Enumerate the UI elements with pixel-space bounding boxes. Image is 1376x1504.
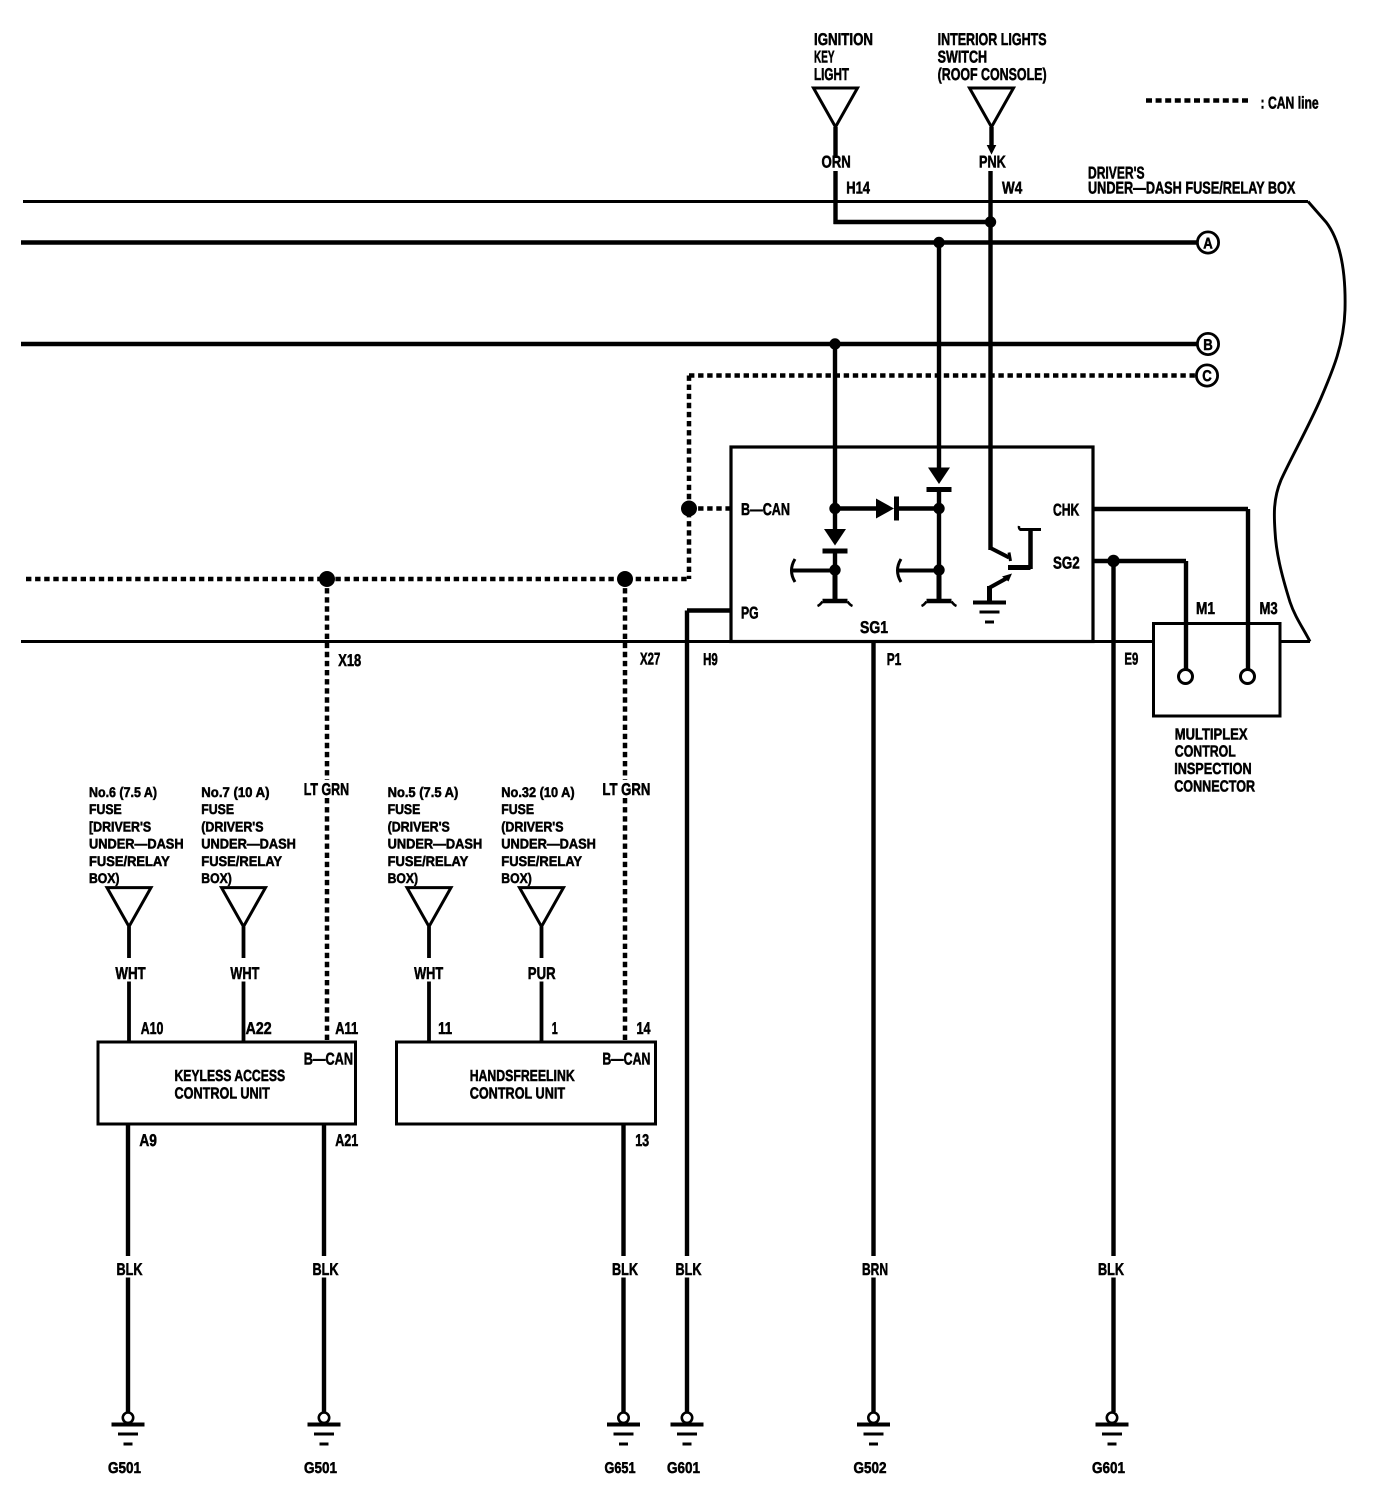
junction node B-CAN branch on riser xyxy=(681,501,697,517)
svg-text:G601: G601 xyxy=(1092,1460,1125,1477)
svg-text:HANDSFREELINK: HANDSFREELINK xyxy=(470,1068,575,1085)
ground G502 xyxy=(868,1413,878,1423)
svg-text:BOX): BOX) xyxy=(501,870,532,886)
connector triangle: IGNITION KEY LIGHT xyxy=(814,88,858,127)
svg-text:WHT: WHT xyxy=(230,964,259,983)
svg-text:C: C xyxy=(1202,368,1212,385)
svg-text:A10: A10 xyxy=(141,1019,164,1038)
wire Q1 emitter to internal ground xyxy=(987,586,992,601)
wire from bus B down into control box to B-CAN node xyxy=(833,344,837,509)
CAN dashed drop wire LT GRN from X18 to keyless access unit pin A11 xyxy=(325,579,330,780)
diode D2 (pointing down) on x=939 branch from bus A xyxy=(928,468,950,485)
transistor Q3 (middle) with base bracket and emitter bar xyxy=(933,564,944,575)
transistor Q2 (left) with base bracket and emitter bar xyxy=(829,564,840,575)
wire PUR from fuse F4 to handsfreelink unit pin 1 xyxy=(540,927,544,958)
svg-text:MULTIPLEX: MULTIPLEX xyxy=(1175,727,1248,744)
fuse F2 triangle symbol xyxy=(222,888,266,927)
CAN dashed vertical riser x=689 from bus C down to lower CAN bus xyxy=(687,376,692,580)
keyless access control unit box xyxy=(98,1042,356,1124)
svg-text:PNK: PNK xyxy=(979,153,1006,172)
wire WHT from fuse F3 to handsfreelink unit pin 11 xyxy=(427,927,431,958)
svg-text:BLK: BLK xyxy=(612,1260,639,1279)
svg-text:M3: M3 xyxy=(1260,599,1278,618)
driver's under-dash fuse/relay box top edge xyxy=(23,200,1308,203)
svg-text:UNDER—DASH: UNDER—DASH xyxy=(388,836,483,852)
wire PNK from interior lights switch, pin W4 xyxy=(989,127,993,146)
svg-text:A21: A21 xyxy=(335,1131,358,1150)
bus wire A (thick horizontal) xyxy=(21,240,1198,244)
svg-text:BLK: BLK xyxy=(313,1260,340,1279)
fuse F1 triangle symbol xyxy=(107,888,151,927)
multiplex control inspection connector box xyxy=(1154,624,1281,717)
svg-text:G502: G502 xyxy=(854,1460,887,1477)
ground G501 (second) xyxy=(319,1413,329,1423)
svg-text:BOX): BOX) xyxy=(388,870,419,886)
svg-text:1: 1 xyxy=(552,1019,558,1038)
CAN dashed branch to B-CAN pin of control box xyxy=(689,506,731,511)
svg-text:A22: A22 xyxy=(246,1019,272,1038)
svg-text:BOX): BOX) xyxy=(201,870,232,886)
svg-text:LIGHT: LIGHT xyxy=(814,65,849,84)
svg-text:UNDER—DASH FUSE/RELAY BOX: UNDER—DASH FUSE/RELAY BOX xyxy=(1088,179,1296,198)
svg-text:H9: H9 xyxy=(703,650,718,669)
svg-text:(DRIVER'S: (DRIVER'S xyxy=(201,818,263,834)
svg-text:UNDER—DASH: UNDER—DASH xyxy=(501,836,596,852)
ground G601 for E9 wire xyxy=(1107,1413,1117,1423)
svg-text:FUSE: FUSE xyxy=(201,801,234,817)
svg-text:X18: X18 xyxy=(338,651,361,670)
wire from bus A down into control box to diode D2 xyxy=(937,243,941,469)
svg-text:SWITCH: SWITCH xyxy=(938,48,988,67)
internal ground symbol under Q1 xyxy=(973,601,1006,605)
svg-text:WHT: WHT xyxy=(115,964,146,983)
svg-text:CONTROL: CONTROL xyxy=(1175,744,1236,761)
CAN dashed drop wire LT GRN from X27 to handsfreelink unit pin 14 xyxy=(623,579,628,780)
svg-text:FUSE: FUSE xyxy=(388,801,421,817)
control box (integrated unit) outline xyxy=(731,447,1093,642)
svg-text:FUSE: FUSE xyxy=(89,801,122,817)
lower CAN dashed bus y=579 xyxy=(26,577,689,582)
ground G651 xyxy=(618,1413,628,1423)
svg-text:14: 14 xyxy=(637,1019,651,1038)
svg-text:H14: H14 xyxy=(846,179,870,198)
wire WHT from fuse F1 to keyless access unit pin A10 xyxy=(127,927,131,958)
fuse F3 triangle symbol xyxy=(407,888,451,927)
svg-text:CONTROL UNIT: CONTROL UNIT xyxy=(175,1086,271,1103)
svg-text:UNDER—DASH: UNDER—DASH xyxy=(89,836,184,852)
handsfreelink control unit box xyxy=(397,1042,656,1124)
svg-text:G501: G501 xyxy=(304,1460,337,1477)
wire stub and terminal circle M1 xyxy=(1184,622,1188,670)
legend: CAN line dashed sample xyxy=(1146,98,1251,103)
svg-text:UNDER—DASH: UNDER—DASH xyxy=(201,836,296,852)
svg-text:FUSE/RELAY: FUSE/RELAY xyxy=(201,853,282,869)
wire pin 13 down to ground G651 (BLK) xyxy=(621,1124,625,1256)
svg-text:B—CAN: B—CAN xyxy=(741,500,790,519)
wire from node x=939 down to transistor Q3 xyxy=(937,509,941,571)
svg-text:P1: P1 xyxy=(887,650,902,669)
svg-text:BLK: BLK xyxy=(117,1260,144,1279)
svg-text:LT GRN: LT GRN xyxy=(602,780,650,799)
svg-text:B: B xyxy=(1203,337,1213,354)
svg-text:CONNECTOR: CONNECTOR xyxy=(1174,779,1255,796)
svg-text:A11: A11 xyxy=(335,1019,358,1038)
ground G501 (left) xyxy=(123,1413,133,1423)
wire SG1/P1 from control box bottom down to ground G502 (BRN) xyxy=(871,642,875,1257)
transistor Q1 (right, PNP to ground) xyxy=(991,548,1010,558)
wire A21 down to ground G501 (BLK) xyxy=(322,1124,326,1256)
svg-text:E9: E9 xyxy=(1124,650,1138,669)
wire PNK continues down into control box to transistor Q1 collector xyxy=(988,222,992,550)
svg-text:(DRIVER'S: (DRIVER'S xyxy=(501,818,563,834)
svg-text:SG2: SG2 xyxy=(1053,554,1080,573)
svg-text:INSPECTION: INSPECTION xyxy=(1174,761,1251,778)
svg-text:G651: G651 xyxy=(605,1460,636,1477)
svg-text:BOX): BOX) xyxy=(89,870,120,886)
svg-text:No.7 (10 A): No.7 (10 A) xyxy=(201,784,269,800)
svg-text:[DRIVER'S: [DRIVER'S xyxy=(89,818,151,834)
junction node X27 on lower CAN bus xyxy=(617,571,633,587)
junction node D2 cathode / D3 cathode x=939 xyxy=(933,503,944,514)
junction node on bus B at x=835 xyxy=(829,338,840,349)
svg-text:PG: PG xyxy=(741,604,759,623)
wire WHT from fuse F2 to keyless access unit pin A22 xyxy=(242,927,246,958)
wire A9 down to ground G501 (BLK) xyxy=(126,1124,130,1256)
svg-text:BLK: BLK xyxy=(676,1260,703,1279)
svg-text:(ROOF CONSOLE): (ROOF CONSOLE) xyxy=(938,65,1047,84)
svg-text:FUSE: FUSE xyxy=(501,801,534,817)
svg-text:11: 11 xyxy=(438,1019,452,1038)
fuse/relay box right S-curve edge xyxy=(1274,202,1345,642)
svg-text:INTERIOR LIGHTS: INTERIOR LIGHTS xyxy=(938,30,1047,49)
wire stub and terminal circle M3 xyxy=(1246,622,1250,670)
connector circle C xyxy=(1196,365,1217,386)
svg-text:A: A xyxy=(1203,235,1213,252)
wire CHK from control box to multiplex connector pin M3 xyxy=(1093,507,1248,511)
svg-text:BRN: BRN xyxy=(862,1260,888,1279)
svg-text:(DRIVER'S: (DRIVER'S xyxy=(388,818,450,834)
svg-text:WHT: WHT xyxy=(414,964,444,983)
svg-text:FUSE/RELAY: FUSE/RELAY xyxy=(89,853,170,869)
svg-text:A9: A9 xyxy=(139,1131,157,1150)
diode D1 (pointing down) on x=835 branch xyxy=(833,509,837,531)
horizontal diode D3 from node x=835 to node x=939 xyxy=(835,506,876,510)
svg-text:FUSE/RELAY: FUSE/RELAY xyxy=(501,853,582,869)
svg-text:No.6 (7.5 A): No.6 (7.5 A) xyxy=(89,784,157,800)
junction node on bus A at x=939 xyxy=(933,237,944,248)
wire E9 vertical down to ground G601 (BLK) xyxy=(1111,561,1115,1256)
junction node: ORN joins PNK wire xyxy=(985,216,996,227)
svg-text:LT GRN: LT GRN xyxy=(304,780,350,799)
svg-text:: CAN line: : CAN line xyxy=(1261,94,1319,113)
svg-text:ORN: ORN xyxy=(822,153,851,172)
wire H9 vertical down to ground G601 (BLK) xyxy=(685,611,689,1257)
wire PG from control box left to H9 drop xyxy=(687,608,731,612)
svg-text:SG1: SG1 xyxy=(860,618,888,637)
svg-text:CONTROL UNIT: CONTROL UNIT xyxy=(470,1086,566,1103)
svg-text:B—CAN: B—CAN xyxy=(304,1049,353,1068)
svg-text:B—CAN: B—CAN xyxy=(602,1049,650,1068)
wire SG2 from control box to multiplex connector pin M1 xyxy=(1093,559,1186,563)
fuse/relay box bottom edge xyxy=(21,640,1310,643)
svg-text:BLK: BLK xyxy=(1098,1260,1125,1279)
wire ORN from ignition key light, pin H14 xyxy=(833,127,837,156)
svg-text:No.5 (7.5 A): No.5 (7.5 A) xyxy=(388,784,459,800)
svg-text:PUR: PUR xyxy=(528,964,556,983)
connector circle A xyxy=(1197,232,1218,253)
connector triangle: INTERIOR LIGHTS SWITCH (ROOF CONSOLE) xyxy=(970,88,1014,127)
bus wire B (thick horizontal) xyxy=(21,342,1198,346)
svg-text:G601: G601 xyxy=(667,1460,700,1477)
svg-text:M1: M1 xyxy=(1196,599,1215,618)
svg-text:IGNITION: IGNITION xyxy=(814,30,873,49)
svg-text:No.32 (10 A): No.32 (10 A) xyxy=(501,784,574,800)
junction node D1 anode at B-CAN level x=835 xyxy=(829,503,840,514)
svg-text:FUSE/RELAY: FUSE/RELAY xyxy=(388,853,469,869)
svg-text:G501: G501 xyxy=(108,1460,141,1477)
svg-text:13: 13 xyxy=(635,1131,649,1150)
svg-text:X27: X27 xyxy=(640,650,660,669)
svg-text:W4: W4 xyxy=(1002,179,1023,198)
svg-text:KEY: KEY xyxy=(814,48,835,67)
svg-text:KEYLESS ACCESS: KEYLESS ACCESS xyxy=(175,1068,286,1085)
ground G601 for H9 wire xyxy=(682,1413,692,1423)
fuse F4 triangle symbol xyxy=(520,888,564,927)
svg-text:CHK: CHK xyxy=(1053,501,1080,520)
connector circle B xyxy=(1197,333,1218,354)
junction node X18 on lower CAN bus xyxy=(319,571,335,587)
junction node E9 branch on SG2 wire xyxy=(1107,555,1119,567)
bus wire C (CAN dashed horizontal) xyxy=(689,373,1198,378)
